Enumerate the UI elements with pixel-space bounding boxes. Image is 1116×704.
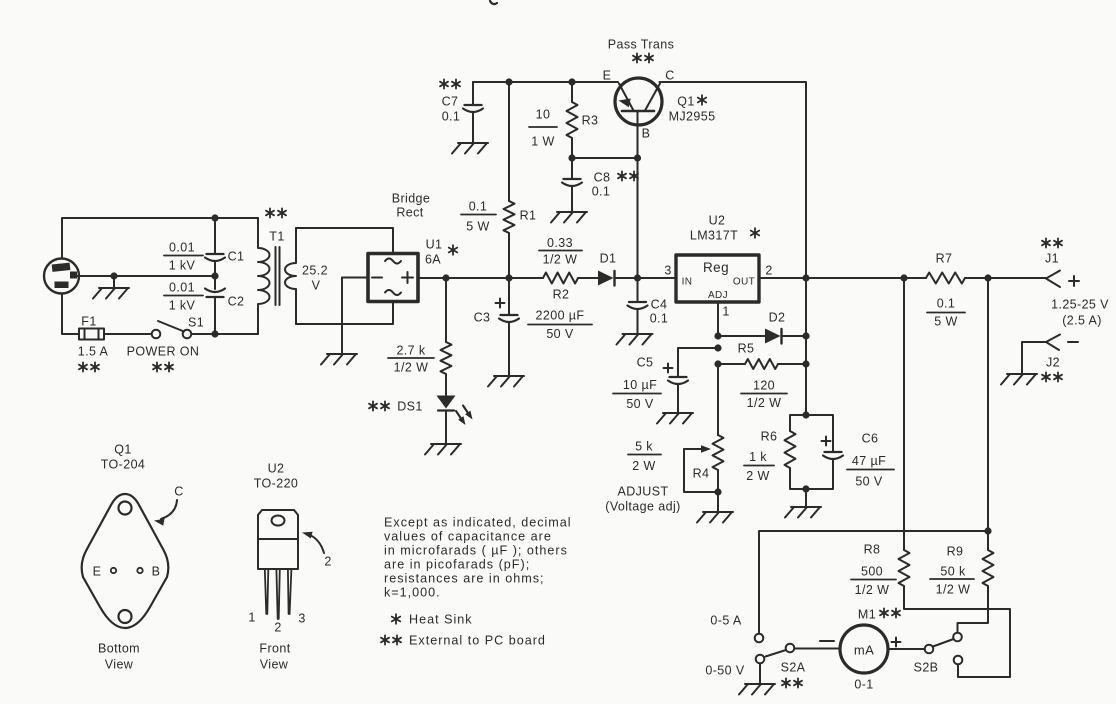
svg-text:E: E bbox=[93, 564, 102, 578]
jack J1 bbox=[1046, 271, 1060, 288]
svg-text:mA: mA bbox=[854, 643, 874, 658]
ground C5 bbox=[657, 413, 693, 424]
top rail left segment bbox=[473, 81, 618, 83]
svg-text:E: E bbox=[603, 68, 612, 82]
jack J2 bbox=[1046, 335, 1060, 351]
svg-text:1/2 W: 1/2 W bbox=[394, 360, 429, 374]
label ** C7 bbox=[440, 79, 448, 88]
svg-text:0.1: 0.1 bbox=[937, 296, 956, 310]
svg-text:S1: S1 bbox=[188, 315, 204, 329]
svg-text:J1: J1 bbox=[1045, 251, 1059, 265]
node D2 right bbox=[802, 332, 809, 339]
svg-text:Q1: Q1 bbox=[677, 94, 694, 108]
svg-text:B: B bbox=[642, 126, 651, 140]
svg-text:Q1: Q1 bbox=[114, 442, 131, 456]
svg-text:values of capacitance are: values of capacitance are bbox=[384, 529, 552, 543]
svg-text:(Voltage adj): (Voltage adj) bbox=[605, 499, 680, 513]
svg-text:C7: C7 bbox=[442, 94, 459, 108]
contact S2B up bbox=[953, 633, 962, 642]
wire rail left column to R8 bbox=[903, 278, 905, 550]
label ** under POWER ON bbox=[153, 362, 161, 371]
wire plug top to AC top rail bbox=[62, 218, 258, 259]
wire 0-5A tap bbox=[759, 531, 988, 634]
svg-text:3: 3 bbox=[298, 611, 305, 625]
label ** C8 bbox=[618, 171, 626, 180]
capacitor C5 bbox=[678, 348, 718, 377]
svg-text:U1: U1 bbox=[426, 237, 443, 251]
wire rail to J1 bbox=[965, 277, 1046, 279]
capacitor C8 bbox=[571, 158, 573, 179]
svg-text:0.33: 0.33 bbox=[547, 236, 573, 250]
wire switch to transformer bottom bbox=[192, 333, 259, 335]
AC plug P1 bbox=[44, 259, 79, 294]
capacitor C2 bbox=[214, 276, 216, 289]
svg-text:2200 µF: 2200 µF bbox=[536, 308, 585, 322]
svg-text:Pass Trans: Pass Trans bbox=[608, 37, 675, 51]
LED DS1 bbox=[437, 396, 456, 409]
main rail bridge to R2 bbox=[446, 277, 543, 279]
wire R8 bottom loop to S2B down contact bbox=[904, 586, 1010, 677]
svg-text:50 V: 50 V bbox=[626, 397, 654, 411]
node R1 top bbox=[505, 78, 512, 85]
svg-text:OUT: OUT bbox=[733, 277, 755, 288]
svg-text:2: 2 bbox=[765, 263, 772, 277]
svg-text:C: C bbox=[174, 484, 183, 498]
svg-text:2 W: 2 W bbox=[746, 469, 769, 483]
svg-text:R4: R4 bbox=[693, 466, 710, 480]
svg-text:T1: T1 bbox=[269, 229, 284, 243]
ground DS1 bbox=[425, 444, 461, 455]
label ** M1 bbox=[880, 608, 888, 617]
svg-text:Rect: Rect bbox=[396, 205, 423, 219]
svg-text:IN: IN bbox=[682, 277, 693, 288]
resistor 2.7k bbox=[441, 342, 452, 374]
svg-text:25.2: 25.2 bbox=[302, 263, 328, 277]
ground C7 bbox=[452, 143, 488, 154]
svg-text:F1: F1 bbox=[81, 314, 96, 328]
wire R3-C8 junction to base bbox=[572, 157, 638, 159]
node base junction bbox=[634, 154, 641, 161]
svg-text:1 k: 1 k bbox=[749, 450, 767, 464]
svg-text:1 kV: 1 kV bbox=[169, 258, 196, 272]
svg-text:R3: R3 bbox=[582, 113, 599, 127]
svg-text:0-1: 0-1 bbox=[854, 677, 873, 691]
wire rail right column to R9 bbox=[987, 278, 989, 531]
node AC neutral ground tap bbox=[110, 272, 117, 279]
wire to ground R6C6 bbox=[805, 489, 807, 507]
node C1 top bbox=[211, 214, 218, 221]
U2 package legs bbox=[265, 569, 269, 614]
svg-text:ADJUST: ADJUST bbox=[617, 484, 668, 498]
svg-text:V: V bbox=[312, 278, 321, 292]
ground C8 bbox=[551, 212, 587, 223]
svg-text:MJ2955: MJ2955 bbox=[669, 109, 716, 123]
svg-text:3: 3 bbox=[664, 263, 671, 277]
svg-text:Bridge: Bridge bbox=[392, 191, 431, 205]
svg-text:C8: C8 bbox=[594, 170, 611, 184]
svg-text:R9: R9 bbox=[947, 544, 964, 558]
svg-text:1.5 A: 1.5 A bbox=[78, 344, 109, 358]
node R3 bottom bbox=[568, 154, 575, 161]
rail OUT to R7 bbox=[759, 277, 926, 279]
svg-text:C3: C3 bbox=[474, 310, 491, 324]
wire bridge minus to ground bbox=[342, 278, 368, 355]
resistor R7 bbox=[926, 273, 965, 284]
label * for U1 bbox=[449, 245, 457, 255]
wire R4 to ground bbox=[717, 492, 719, 512]
svg-text:500: 500 bbox=[861, 564, 883, 578]
node ADJ C5 bbox=[714, 344, 721, 351]
svg-text:R5: R5 bbox=[738, 341, 755, 355]
node rail x988 bbox=[984, 274, 991, 281]
contact 0-50V bbox=[756, 655, 765, 664]
wire secondary bottom to bridge bbox=[296, 302, 393, 324]
base column wire bbox=[637, 158, 639, 278]
node R1 C3 rail junction bbox=[505, 274, 512, 281]
ground AC neutral bbox=[113, 276, 115, 288]
contact 0-5A bbox=[755, 634, 764, 643]
svg-text:D2: D2 bbox=[769, 310, 786, 324]
resistor R8 bbox=[899, 550, 910, 586]
svg-text:1: 1 bbox=[248, 610, 255, 624]
svg-text:k=1,000.: k=1,000. bbox=[384, 585, 441, 599]
wire to resistor 2.7k bbox=[445, 278, 447, 342]
svg-text:DS1: DS1 bbox=[397, 399, 423, 413]
node D1 base C4 junction bbox=[634, 274, 641, 281]
ground S2A bbox=[739, 684, 775, 695]
switch S2B bbox=[925, 645, 934, 654]
svg-text:Heat Sink: Heat Sink bbox=[409, 612, 473, 626]
svg-text:C4: C4 bbox=[651, 297, 668, 311]
resistor R1 bbox=[508, 82, 510, 201]
wire S2A to meter bbox=[795, 648, 841, 650]
svg-text:R8: R8 bbox=[864, 542, 881, 556]
wire D1 to regulator IN bbox=[615, 277, 677, 279]
capacitor C6 bbox=[806, 415, 833, 452]
node R6C6 top bbox=[802, 411, 809, 418]
ground bridge bbox=[321, 354, 357, 365]
svg-text:View: View bbox=[260, 657, 289, 671]
wire secondary top to bridge bbox=[296, 228, 393, 253]
resistor R2 bbox=[543, 273, 578, 284]
svg-text:10 µF: 10 µF bbox=[623, 378, 657, 392]
label ** above T1 bbox=[266, 208, 274, 217]
ground C3 bbox=[488, 376, 524, 387]
svg-text:C6: C6 bbox=[862, 431, 879, 445]
svg-text:External to PC board: External to PC board bbox=[409, 633, 546, 647]
svg-text:1/2 W: 1/2 W bbox=[855, 583, 890, 597]
svg-text:(2.5 A): (2.5 A) bbox=[1062, 313, 1102, 327]
regulator U2 LM317T bbox=[676, 255, 759, 302]
svg-text:LM317T: LM317T bbox=[690, 228, 738, 242]
wire resistor to DS1 bbox=[445, 374, 447, 396]
label ** J2 bbox=[1042, 372, 1050, 381]
node R4 wiper bottom bbox=[714, 488, 721, 495]
ground C4 bbox=[617, 334, 653, 345]
svg-text:1/2 W: 1/2 W bbox=[747, 396, 782, 410]
node R9 tap bbox=[984, 527, 991, 534]
wire 0-50V contact to ground bbox=[759, 664, 761, 685]
svg-text:C1: C1 bbox=[228, 249, 245, 263]
svg-text:in microfarads ( µF ); others: in microfarads ( µF ); others bbox=[384, 543, 568, 557]
label ** J1 bbox=[1042, 238, 1050, 247]
svg-text:B: B bbox=[152, 564, 161, 578]
svg-text:R2: R2 bbox=[553, 287, 570, 301]
svg-text:47 µF: 47 µF bbox=[852, 454, 886, 468]
svg-text:Except as indicated, decimal: Except as indicated, decimal bbox=[384, 515, 572, 529]
svg-text:ADJ: ADJ bbox=[708, 290, 728, 301]
svg-text:Front: Front bbox=[259, 641, 290, 655]
svg-text:120: 120 bbox=[753, 378, 775, 392]
svg-text:POWER ON: POWER ON bbox=[127, 344, 200, 358]
node rail x904 bbox=[900, 274, 907, 281]
svg-text:1 W: 1 W bbox=[531, 134, 554, 148]
svg-text:2.7 k: 2.7 k bbox=[396, 343, 425, 357]
svg-text:50 V: 50 V bbox=[855, 474, 883, 488]
svg-text:50 V: 50 V bbox=[546, 327, 574, 341]
svg-text:M1: M1 bbox=[858, 607, 876, 621]
node C2 bottom bbox=[211, 330, 218, 337]
svg-text:TO-204: TO-204 bbox=[101, 457, 146, 471]
svg-text:0.01: 0.01 bbox=[169, 240, 195, 254]
svg-text:0.1: 0.1 bbox=[650, 311, 669, 325]
contact S2B down bbox=[954, 656, 963, 665]
ADJ column to R4 bbox=[717, 364, 719, 435]
svg-text:R7: R7 bbox=[936, 251, 953, 265]
svg-text:S2B: S2B bbox=[914, 660, 939, 674]
svg-text:1: 1 bbox=[722, 304, 729, 318]
svg-text:1 kV: 1 kV bbox=[169, 298, 196, 312]
resistor R5 bbox=[718, 363, 745, 365]
DS1 light arrows bbox=[456, 411, 463, 422]
label ** DS1 bbox=[369, 401, 377, 410]
bridge rectifier U1 bbox=[368, 254, 418, 302]
wire plug bottom lead bbox=[62, 294, 79, 335]
top rail right segment bbox=[660, 82, 807, 278]
right column rail to R6C6 bbox=[805, 278, 807, 415]
svg-text:0-50 V: 0-50 V bbox=[705, 663, 744, 677]
label ** S2A bbox=[782, 678, 790, 687]
node R5 right bbox=[802, 360, 809, 367]
svg-text:TO-220: TO-220 bbox=[254, 476, 299, 490]
svg-text:5 k: 5 k bbox=[635, 439, 653, 453]
ground R6C6 bbox=[785, 507, 821, 518]
svg-text:are in picofarads (pF);: are in picofarads (pF); bbox=[384, 557, 530, 571]
capacitor C7 bbox=[472, 82, 474, 105]
svg-text:2 W: 2 W bbox=[632, 459, 655, 473]
svg-text:0-5 A: 0-5 A bbox=[710, 613, 741, 627]
transistor Q1 bbox=[615, 78, 662, 125]
switch S2A bbox=[786, 644, 795, 653]
svg-text:S2A: S2A bbox=[781, 660, 806, 674]
wire fuse to switch S1 bbox=[104, 333, 152, 335]
svg-text:0.1: 0.1 bbox=[442, 109, 461, 123]
transformer T1 secondary bbox=[285, 228, 296, 324]
svg-text:2: 2 bbox=[324, 554, 331, 568]
node R3 top bbox=[568, 78, 575, 85]
svg-text:R1: R1 bbox=[520, 208, 537, 222]
label * U2 bbox=[751, 228, 759, 238]
resistor R9 bbox=[983, 550, 994, 586]
label * Q1 bbox=[698, 95, 706, 105]
diode D1 bbox=[598, 271, 614, 286]
stray scan mark top bbox=[490, 1, 497, 4]
wire plug neutral to capacitor junction bbox=[77, 275, 215, 277]
svg-text:J2: J2 bbox=[1046, 355, 1060, 369]
wire R9 bottom to S2B up contact bbox=[958, 586, 989, 633]
svg-text:C: C bbox=[665, 68, 674, 82]
note * Heat Sink bbox=[392, 614, 400, 624]
svg-text:View: View bbox=[105, 657, 134, 671]
node ADJ R5 bbox=[714, 360, 721, 367]
node R6C6 bottom bbox=[802, 485, 809, 492]
wire R2 to D1 bbox=[578, 277, 598, 279]
svg-text:0.1: 0.1 bbox=[469, 199, 488, 213]
svg-text:U2: U2 bbox=[709, 213, 726, 227]
svg-text:1/2 W: 1/2 W bbox=[936, 582, 971, 596]
svg-text:0.1: 0.1 bbox=[592, 184, 611, 198]
wire bridge output to rail bbox=[418, 277, 446, 279]
resistor R6 bbox=[790, 415, 806, 431]
capacitor C3 bbox=[508, 278, 510, 315]
svg-text:1.25-25 V: 1.25-25 V bbox=[1051, 297, 1109, 311]
svg-text:U2: U2 bbox=[268, 461, 285, 475]
diode D2 bbox=[718, 335, 765, 337]
svg-text:1/2 W: 1/2 W bbox=[543, 252, 578, 266]
svg-text:R6: R6 bbox=[761, 429, 778, 443]
svg-text:6A: 6A bbox=[425, 252, 441, 266]
ground R4 bbox=[697, 512, 733, 523]
svg-text:C5: C5 bbox=[637, 355, 654, 369]
R4 wiper arrow bbox=[684, 448, 703, 450]
label ** under F1 bbox=[79, 362, 87, 371]
wire meter to S2B bbox=[888, 648, 925, 650]
ADJ pin wire bbox=[717, 302, 719, 336]
svg-text:D1: D1 bbox=[600, 251, 617, 265]
ground J2 bbox=[1001, 374, 1037, 385]
svg-text:0.01: 0.01 bbox=[169, 280, 195, 294]
transformer core bbox=[275, 247, 277, 305]
capacitor C1 bbox=[214, 218, 216, 254]
node bridge output bbox=[442, 274, 449, 281]
resistor R3 bbox=[571, 82, 573, 102]
potentiometer R4 bbox=[713, 435, 724, 470]
svg-text:C2: C2 bbox=[228, 294, 245, 308]
capacitor C4 bbox=[637, 278, 639, 302]
Q1 package bottom hole bbox=[119, 610, 132, 623]
switch S1 bbox=[152, 330, 161, 339]
node ADJ D2 bbox=[714, 332, 721, 339]
meter M1 bbox=[840, 625, 888, 673]
note ** External to PC board bbox=[381, 635, 389, 644]
svg-text:5 W: 5 W bbox=[466, 219, 489, 233]
svg-text:50 k: 50 k bbox=[940, 564, 966, 578]
svg-text:10: 10 bbox=[536, 107, 551, 121]
svg-text:Bottom: Bottom bbox=[98, 641, 140, 655]
svg-text:resistances are in ohms;: resistances are in ohms; bbox=[384, 571, 545, 585]
fuse F1 bbox=[79, 329, 104, 340]
Q1 package top hole bbox=[119, 502, 132, 515]
svg-text:2: 2 bbox=[274, 620, 281, 634]
node collector to rail bbox=[802, 274, 809, 281]
svg-text:Reg: Reg bbox=[703, 260, 729, 275]
svg-text:5 W: 5 W bbox=[934, 314, 957, 328]
node C1 C2 midpoint bbox=[211, 272, 218, 279]
